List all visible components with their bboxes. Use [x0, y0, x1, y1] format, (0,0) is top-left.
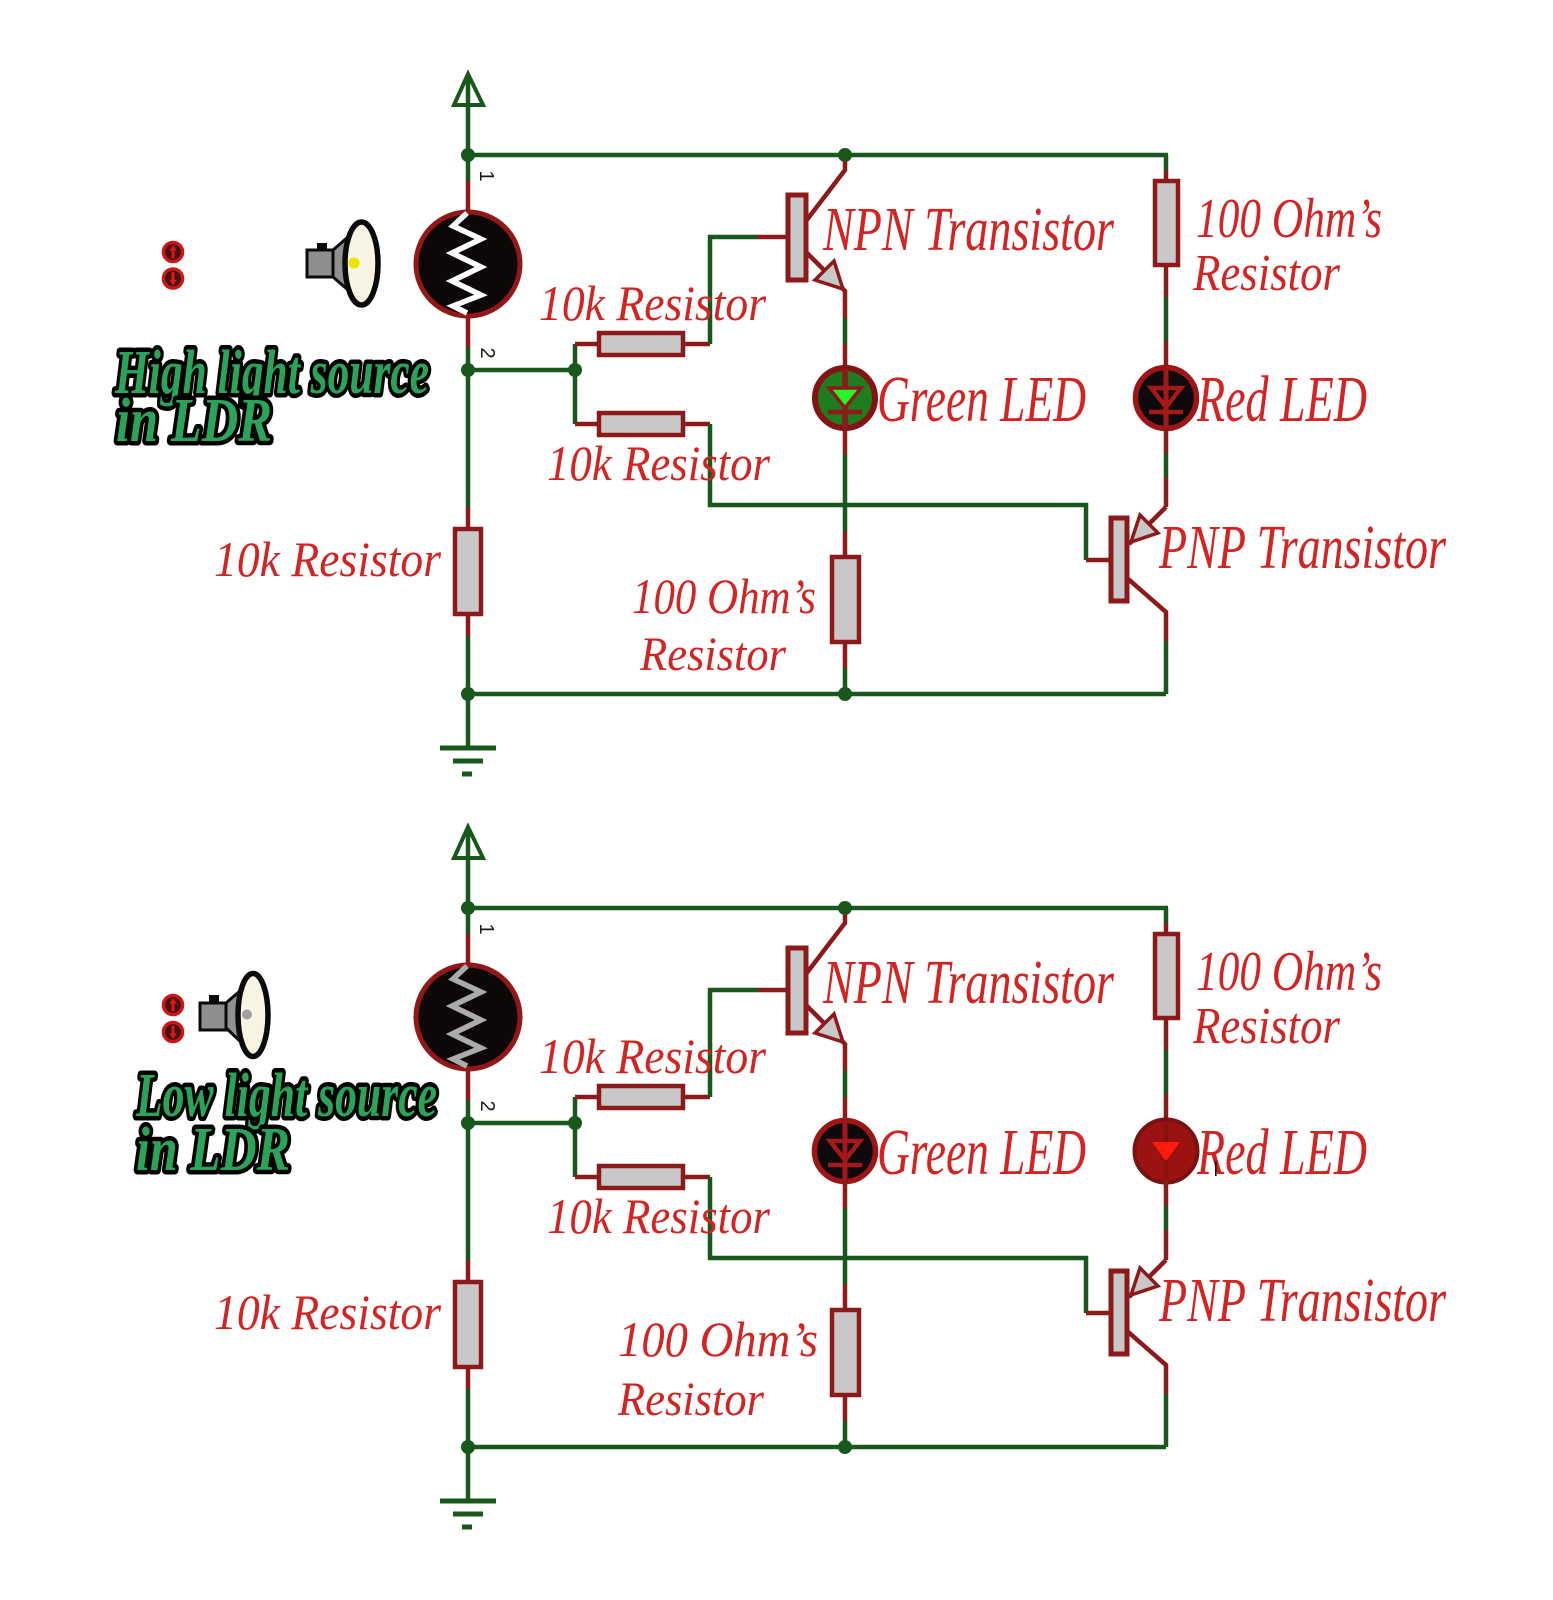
svg-text:Resistor: Resistor [1192, 998, 1341, 1055]
svg-text:100 Ohm’s: 100 Ohm’s [1196, 188, 1382, 250]
svg-text:Resistor: Resistor [1192, 245, 1341, 302]
svg-text:10k Resistor: 10k Resistor [539, 1028, 766, 1084]
svg-text:PNP Transistor: PNP Transistor [1158, 1267, 1446, 1335]
svg-text:Green LED: Green LED [877, 363, 1086, 436]
svg-text:10k Resistor: 10k Resistor [214, 1284, 441, 1340]
svg-text:Red LED: Red LED [1196, 1116, 1367, 1189]
svg-text:in LDR: in LDR [116, 387, 272, 455]
svg-text:Green LED: Green LED [877, 1116, 1086, 1189]
svg-text:10k Resistor: 10k Resistor [539, 275, 766, 331]
svg-text:2: 2 [476, 347, 498, 358]
svg-text:Resistor: Resistor [617, 1373, 764, 1426]
svg-text:100 Ohm’s: 100 Ohm’s [618, 1311, 818, 1367]
svg-text:100 Ohm’s: 100 Ohm’s [632, 568, 816, 624]
svg-text:1: 1 [475, 170, 497, 181]
svg-text:10k Resistor: 10k Resistor [547, 1188, 770, 1244]
svg-text:Resistor: Resistor [639, 628, 786, 681]
svg-text:Red LED: Red LED [1196, 363, 1367, 436]
svg-text:10k Resistor: 10k Resistor [547, 435, 770, 491]
svg-text:1: 1 [475, 923, 497, 934]
svg-text:2: 2 [476, 1100, 498, 1111]
svg-text:100 Ohm’s: 100 Ohm’s [1196, 941, 1382, 1003]
svg-text:in LDR: in LDR [136, 1116, 290, 1184]
svg-text:PNP Transistor: PNP Transistor [1158, 514, 1446, 582]
svg-text:NPN Transistor: NPN Transistor [822, 196, 1114, 264]
svg-text:NPN Transistor: NPN Transistor [822, 949, 1114, 1017]
svg-text:10k Resistor: 10k Resistor [214, 531, 441, 587]
